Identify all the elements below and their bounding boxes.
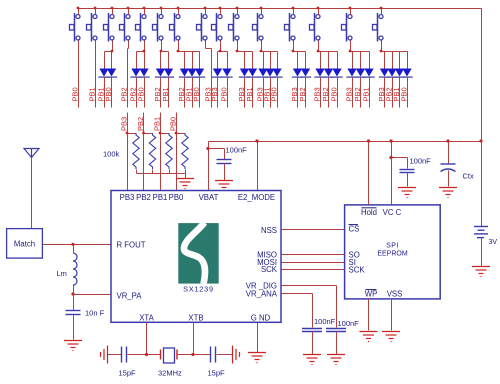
wire Ctx	[448, 142, 450, 165]
antenna ANT1	[24, 149, 39, 158]
pushbutton SW9	[212, 13, 223, 42]
svg-text:15pF: 15pF	[208, 369, 226, 378]
pushbutton SW15	[373, 13, 384, 42]
wire button stub	[318, 9, 320, 15]
svg-text:PB0: PB0	[329, 87, 338, 101]
svg-text:PB2: PB2	[136, 193, 151, 202]
wire button to LED anode rail	[261, 41, 263, 52]
wire LED cathode	[136, 78, 138, 108]
pushbutton SW5	[136, 13, 147, 42]
wire button column	[78, 41, 80, 108]
wire button to LED anode rail	[161, 41, 163, 52]
wire LED cathode	[168, 78, 170, 108]
ground (VBAT cap)	[215, 181, 233, 191]
capacitor 100nF (VR_DIG)	[326, 329, 346, 332]
pushbutton SW14	[342, 13, 353, 42]
svg-text:3V: 3V	[489, 239, 498, 246]
wire button column	[205, 41, 207, 49]
wire LED cathode	[160, 78, 162, 108]
wire button to LED anode rail	[112, 41, 114, 52]
wire VSS down	[391, 299, 393, 331]
wire LED anode	[104, 52, 106, 69]
wire LED anode	[407, 52, 409, 69]
wire LED anode rail	[218, 51, 228, 53]
svg-text:PB1: PB1	[152, 117, 161, 131]
LED diode PB1	[395, 69, 404, 77]
wire button stub	[112, 9, 114, 15]
wire PB3 pull-down	[127, 113, 129, 191]
capacitor Ctx	[441, 164, 456, 172]
LED diode PB0	[332, 69, 341, 77]
wire LED anode	[217, 52, 219, 69]
wire LED anode	[328, 52, 330, 69]
ground (WP)	[360, 332, 378, 342]
LED diode PB0	[195, 69, 204, 77]
svg-text:100nF: 100nF	[410, 157, 432, 166]
LED diode PB2	[156, 69, 165, 77]
LED diode PB0	[402, 69, 411, 77]
wire Lm to VR_PA node	[73, 286, 75, 311]
svg-text:Match: Match	[14, 240, 35, 249]
wire LED anode rail	[351, 51, 370, 53]
LED diode PB3	[213, 69, 222, 77]
wire LED cathode	[192, 78, 194, 108]
pushbutton SW8	[197, 13, 208, 42]
capacitor 10nF	[66, 311, 81, 315]
wire cap to ground	[407, 173, 409, 187]
wire LED cathode	[369, 78, 371, 108]
wire LED anode	[305, 52, 307, 69]
pushbutton SW12	[285, 13, 296, 42]
svg-text:PB3: PB3	[120, 193, 135, 202]
wire LED anode	[136, 52, 138, 69]
wire SCK-SCK	[282, 269, 345, 271]
pushbutton SW3	[104, 13, 115, 42]
svg-text:32MHz: 32MHz	[158, 369, 182, 378]
svg-text:PB1: PB1	[245, 87, 254, 101]
svg-text:VSS: VSS	[387, 290, 403, 299]
wire resistor jog	[128, 133, 137, 135]
wire RFOUT	[43, 244, 112, 246]
resistor 100k R3	[166, 133, 172, 169]
svg-text:PB0: PB0	[269, 87, 278, 101]
wire LED cathode	[328, 78, 330, 108]
pushbutton SW6	[153, 13, 164, 42]
wire LED anode rail	[105, 51, 113, 53]
wire antenna to match	[31, 158, 33, 229]
wire button stub	[178, 9, 180, 15]
wire LED anode	[111, 52, 113, 69]
wire LED cathode	[263, 78, 265, 108]
wire LED cathode	[360, 78, 362, 108]
wire LED cathode	[144, 78, 146, 108]
wire rail to ground	[185, 174, 187, 179]
svg-text:PB0: PB0	[192, 87, 201, 101]
wire LED cathode	[199, 78, 201, 108]
wire LED anode rail	[137, 51, 145, 53]
svg-text:VC C: VC C	[383, 208, 402, 217]
wire right supply drop to battery	[481, 9, 483, 227]
svg-text:XTB: XTB	[188, 314, 203, 323]
LED diode PB0	[139, 69, 148, 77]
wire LED anode	[277, 52, 279, 69]
LED diode PB1	[99, 69, 108, 77]
wire LED cathode	[270, 78, 272, 108]
svg-text:PB0: PB0	[136, 87, 145, 101]
svg-text:PB0: PB0	[169, 193, 184, 202]
svg-text:SPI: SPI	[386, 243, 399, 250]
wire LED cathode	[252, 78, 254, 108]
LED diode PB1	[265, 69, 274, 77]
wire LED cathode	[384, 78, 386, 108]
svg-text:SCK: SCK	[349, 266, 366, 275]
wire button stub	[381, 9, 383, 15]
pushbutton SW13	[310, 13, 321, 42]
wire XTB down	[193, 323, 195, 355]
wire MOSI-SI	[282, 262, 345, 264]
wire VCC up	[391, 142, 393, 205]
wire button column	[95, 41, 97, 108]
wire LED cathode	[320, 78, 322, 108]
svg-text:EEPROM: EEPROM	[377, 251, 408, 258]
svg-text:PB0: PB0	[168, 117, 177, 131]
LED diode PB3	[347, 69, 356, 77]
ground (GND pin)	[248, 353, 266, 363]
wire LED anode rail	[319, 51, 338, 53]
wire LED anode	[337, 52, 339, 69]
LED diode PB1	[164, 69, 173, 77]
svg-text:NSS: NSS	[261, 226, 277, 235]
wire resistor common rail	[137, 173, 186, 175]
wire PB1 pull-down	[160, 113, 162, 191]
svg-text:PB1: PB1	[87, 87, 96, 101]
wire LED anode rail	[294, 51, 306, 53]
wire LED anode rail	[179, 51, 200, 53]
svg-text:SX1239: SX1239	[183, 285, 214, 294]
wire LED anode	[297, 52, 299, 69]
pushbutton SW7	[170, 13, 181, 42]
wire power rail	[209, 141, 482, 143]
resistor 100k R1	[133, 133, 139, 169]
wire LED anode	[244, 52, 246, 69]
wire LED anode	[399, 52, 401, 69]
wire button to LED anode rail	[220, 41, 222, 52]
wire LED anode	[392, 52, 394, 69]
svg-text:PB2: PB2	[119, 87, 128, 101]
LED diode PB2	[301, 69, 310, 77]
ground (10nF)	[64, 341, 82, 351]
wire LED anode	[144, 52, 146, 69]
wire NSS-CS	[282, 229, 345, 231]
svg-text:XTA: XTA	[139, 314, 154, 323]
ground (VSS)	[382, 332, 400, 342]
wire LED anode	[270, 52, 272, 69]
wire button to LED anode rail	[144, 41, 146, 52]
svg-text:R FOUT: R FOUT	[117, 241, 146, 250]
ground (resistors)	[176, 179, 194, 189]
pushbutton SW2	[87, 13, 98, 42]
wire LED anode	[199, 52, 201, 69]
wire VR_PA	[74, 294, 112, 296]
node VR_PA junction	[71, 292, 74, 295]
wire resistor to rail	[136, 170, 138, 174]
wire LED anode	[384, 52, 386, 69]
wire button to LED anode rail	[178, 41, 180, 52]
wire PB2 pull-down	[143, 113, 145, 191]
svg-text:VBAT: VBAT	[199, 193, 219, 202]
wire button to LED anode rail	[318, 41, 320, 52]
LED diode PB3	[293, 69, 302, 77]
svg-text:100nF: 100nF	[338, 319, 360, 328]
wire button stub	[293, 9, 295, 15]
wire LED anode	[184, 52, 186, 69]
pushbutton SW11	[253, 13, 264, 42]
wire GND down	[257, 323, 259, 353]
wire resistor jog	[161, 133, 170, 135]
svg-text:PB0: PB0	[219, 87, 228, 101]
wire resistor to rail	[152, 170, 154, 174]
wire button stub	[95, 9, 97, 15]
svg-text:PB1: PB1	[361, 87, 370, 101]
svg-text:PB3: PB3	[210, 87, 219, 101]
svg-text:Hold: Hold	[361, 208, 377, 217]
pushbutton SW10	[229, 13, 240, 42]
wire button stub	[350, 9, 352, 15]
wire resistor to rail	[185, 170, 187, 174]
wire LED anode rail	[262, 51, 278, 53]
wire resistor jog	[177, 133, 186, 135]
capacitor 100nF (VBAT)	[217, 160, 232, 164]
LED diode PB2	[324, 69, 333, 77]
svg-text:Ctx: Ctx	[463, 172, 475, 181]
wire to ground	[312, 332, 314, 355]
wire LED cathode	[277, 78, 279, 108]
wire button stub	[128, 9, 130, 15]
inductor Lm	[73, 253, 77, 285]
wire cap jog	[209, 148, 225, 150]
wire LED anode	[320, 52, 322, 69]
wire resistor to rail	[169, 170, 171, 174]
LED diode PB2	[387, 69, 396, 77]
match network box "Match"	[7, 229, 43, 259]
resistor 100k R4	[182, 133, 188, 169]
wire button column	[128, 41, 130, 49]
wire LED anode	[352, 52, 354, 69]
wire to ground	[336, 332, 338, 355]
svg-text:G ND: G ND	[251, 314, 271, 323]
wire LED cathode	[244, 78, 246, 108]
svg-text:WP: WP	[365, 290, 378, 299]
ground (VR_ANA cap)	[303, 355, 321, 365]
wire LED cathode	[392, 78, 394, 108]
crystal 32MHz	[160, 350, 162, 360]
svg-text:15pF: 15pF	[119, 369, 137, 378]
svg-text:PB1: PB1	[153, 193, 168, 202]
LED diode PB2	[180, 69, 189, 77]
svg-text:100k: 100k	[103, 150, 120, 159]
wire LED cathode	[217, 78, 219, 108]
wire LED cathode	[337, 78, 339, 108]
wire 10nF to ground	[73, 315, 75, 340]
svg-text:10n F: 10n F	[85, 309, 105, 318]
wire resistor jog	[144, 133, 153, 135]
wire VR_DIG	[282, 285, 337, 287]
wire LED cathode	[407, 78, 409, 108]
wire button stub	[205, 9, 207, 15]
LED diode PB1	[364, 69, 373, 77]
ground (left 15pF)	[101, 346, 108, 364]
wire crystal chain	[108, 354, 122, 356]
svg-text:E2_MODE: E2_MODE	[238, 193, 275, 202]
wire button to LED anode rail	[381, 41, 383, 52]
op IC U1 SX1239 box	[111, 191, 281, 323]
LED diode PB2	[131, 69, 140, 77]
LED diode PB1	[187, 69, 196, 77]
logo Semtech	[178, 223, 218, 284]
svg-text:PB2: PB2	[298, 87, 307, 101]
svg-text:PB0: PB0	[399, 87, 408, 101]
wire button to LED anode rail	[237, 41, 239, 52]
capacitor 15pF (XTA)	[122, 347, 127, 363]
wire Ctx to ground	[448, 171, 450, 187]
wire button to LED anode rail	[350, 41, 352, 52]
LED diode PB1	[248, 69, 257, 77]
svg-text:CS: CS	[349, 225, 360, 234]
wire LED anode	[160, 52, 162, 69]
wire button stub	[161, 9, 163, 15]
wire button stub	[261, 9, 263, 15]
wire LED anode	[369, 52, 371, 69]
wire LED anode	[168, 52, 170, 69]
svg-text:PB1: PB1	[161, 87, 170, 101]
svg-text:PB3: PB3	[119, 117, 128, 131]
LED diode PB2	[356, 69, 365, 77]
capacitor 15pF (XTB)	[211, 347, 216, 363]
svg-text:Lm: Lm	[57, 269, 67, 278]
wire LED anode	[263, 52, 265, 69]
svg-text:100nF: 100nF	[226, 146, 248, 155]
wire LED anode rail	[238, 51, 253, 53]
pushbutton SW1	[70, 13, 81, 42]
pushbutton SW4	[120, 13, 131, 42]
wire WP down	[368, 299, 370, 331]
svg-text:PB0: PB0	[70, 87, 79, 101]
capacitor 100nF (VCC)	[400, 170, 415, 173]
op IC U2 SPI EEPROM box	[345, 205, 441, 299]
capacitor 100nF (VR_ANA)	[302, 329, 322, 332]
wire LED cathode	[352, 78, 354, 108]
node VCC cap junction	[389, 156, 392, 159]
node RFOUT junction	[71, 243, 74, 246]
LED diode PB0	[107, 69, 116, 77]
wire button stub	[78, 9, 80, 15]
wire button stub	[220, 9, 222, 15]
LED diode PB0	[272, 69, 281, 77]
LED diode PB3	[380, 69, 389, 77]
wire PB0 pull-down	[176, 113, 178, 191]
wire LED cathode	[399, 78, 401, 108]
wire LED anode	[252, 52, 254, 69]
wire LED cathode	[184, 78, 186, 108]
wire LED cathode	[111, 78, 113, 108]
wire cap to ground	[224, 164, 226, 181]
wire LED anode rail	[161, 51, 169, 53]
node VBAT cap junction	[206, 147, 209, 150]
wire LED anode	[227, 52, 229, 69]
LED diode PB0	[222, 69, 231, 77]
wire E2_MODE	[257, 142, 259, 191]
wire LED anode	[192, 52, 194, 69]
battery 3V	[474, 227, 488, 238]
svg-text:PB0: PB0	[104, 87, 113, 101]
resistor 100k R2	[149, 133, 155, 169]
wire top supply rail	[79, 8, 482, 10]
wire LED cathode	[297, 78, 299, 108]
wire LED anode rail	[382, 51, 408, 53]
wire button stub	[144, 9, 146, 15]
ground (right 15pF)	[233, 346, 240, 364]
wire LED anode	[360, 52, 362, 69]
wire LED cathode	[104, 78, 106, 108]
LED diode PB3	[240, 69, 249, 77]
ground (VR_DIG cap)	[327, 355, 345, 365]
wire VBAT up	[208, 142, 210, 191]
svg-text:VR_PA: VR_PA	[117, 292, 143, 301]
wire LED cathode	[305, 78, 307, 108]
ground (battery)	[472, 267, 490, 277]
LED diode PB3	[258, 69, 267, 77]
wire VR_ANA	[282, 293, 313, 295]
wire battery to ground	[481, 238, 483, 267]
wire button to LED anode rail	[293, 41, 295, 52]
ground (VCC cap)	[398, 188, 416, 198]
wire LED cathode	[227, 78, 229, 108]
svg-text:PB2: PB2	[136, 117, 145, 131]
svg-text:VR_ANA: VR_ANA	[246, 289, 278, 298]
svg-text:SCK: SCK	[261, 265, 278, 274]
ground (Ctx)	[439, 188, 457, 198]
wire button stub	[237, 9, 239, 15]
wire Hold up	[368, 142, 370, 205]
wire XTA down	[146, 323, 148, 355]
svg-text:100nF: 100nF	[314, 317, 336, 326]
wire MISO-SO	[282, 254, 345, 256]
wire VCC cap jog	[392, 157, 408, 159]
LED diode PB3	[315, 69, 324, 77]
